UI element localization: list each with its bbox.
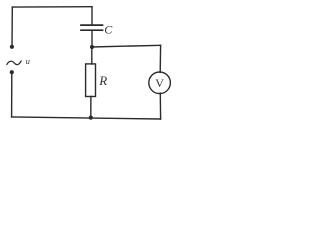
wire capacitor bottom lead to node — [91, 31, 93, 47]
wire capacitor top lead — [91, 7, 93, 24]
wire R top lead — [91, 47, 93, 64]
node A (capacitor/R/voltmeter junction) — [90, 45, 94, 49]
wire left upper (source top lead) — [11, 7, 13, 46]
wire bottom — [12, 117, 161, 119]
capacitor C plates — [81, 24, 103, 26]
svg-text:u: u — [26, 56, 30, 66]
wire left lower (source bottom lead) — [11, 73, 13, 117]
wire right branch upper (to voltmeter) — [159, 45, 161, 72]
resistor R body — [86, 64, 96, 97]
voltmeter V circle — [149, 72, 171, 94]
svg-text:C: C — [104, 23, 113, 37]
AC source tilde symbol — [7, 61, 21, 65]
node dot (source lower terminal) — [10, 70, 14, 74]
wire node to right branch — [92, 45, 161, 47]
wire top (from source to capacitor) — [12, 6, 92, 8]
wire right branch lower (voltmeter to bottom) — [159, 93, 161, 119]
svg-text:V: V — [155, 76, 164, 90]
svg-text:R: R — [98, 73, 107, 88]
node dot (source upper terminal) — [10, 45, 14, 49]
wire R bottom lead — [90, 97, 92, 118]
node B (R bottom / bottom wire junction) — [89, 116, 93, 120]
